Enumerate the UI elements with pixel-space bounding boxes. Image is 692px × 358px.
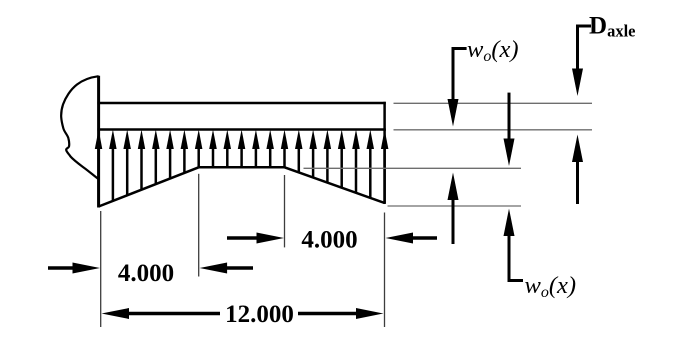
load envelope left slant (99, 167, 199, 206)
load arrow 16 (309, 130, 317, 178)
load arrow 3 (123, 130, 130, 196)
dimension arrow left-pointing (4.000 left) (200, 263, 253, 274)
extension line: middle load level (right) (304, 167, 522, 169)
load arrow 21 (381, 130, 389, 204)
load arrow 9 (209, 130, 217, 168)
load arrow 2 (109, 130, 117, 201)
load envelope right slant (285, 167, 385, 203)
extension line: x=8 vertical (284, 175, 286, 247)
svg-text:wo(x): wo(x) (467, 36, 519, 65)
up arrow + leader w_o(x) bottom (504, 209, 524, 281)
load arrow 14 (281, 130, 288, 168)
down arrow to middle load level (504, 93, 515, 166)
load arrow 11 (238, 130, 246, 168)
fixed support edge line (97, 76, 100, 208)
dimension arrow right-pointing (4.000 left) (48, 263, 100, 274)
load arrow 7 (181, 130, 189, 173)
load arrow 8 (195, 130, 203, 168)
dimension arrow left-pointing (4.000 right) (386, 233, 438, 244)
load arrow 18 (338, 130, 346, 188)
load envelope middle flat (199, 166, 285, 169)
svg-text:wo(x): wo(x) (525, 272, 577, 301)
load arrow 1 (95, 130, 103, 207)
extension line: beam top level (right) (394, 102, 593, 104)
svg-text:4.000: 4.000 (118, 260, 174, 287)
beam (axle) outline (97, 102, 385, 131)
load arrow 10 (224, 130, 232, 168)
dimension arrow right-pointing (4.000 right) (227, 233, 284, 244)
extension line: right end vertical (384, 213, 386, 328)
load envelope right edge (383, 130, 386, 205)
load arrow 6 (166, 130, 174, 179)
up arrow at beam bottom (D_axle pair) (572, 135, 583, 205)
load arrow 13 (266, 130, 274, 168)
load arrow 12 (252, 130, 259, 168)
leader arrow D_axle (572, 26, 591, 96)
leader arrow w_o(x) top (448, 49, 467, 127)
load arrow 4 (138, 130, 145, 190)
support break squiggle (61, 76, 98, 179)
up arrow at middle load level (448, 173, 459, 245)
svg-text:12.000: 12.000 (225, 301, 294, 328)
extension line: end load level (right) (388, 205, 522, 207)
load arrow 15 (295, 130, 303, 173)
load arrow 20 (367, 130, 375, 198)
extension line: left end vertical (100, 211, 102, 327)
extension line: beam bottom level (right) (394, 129, 593, 131)
load arrow 19 (352, 130, 360, 193)
svg-text:4.000: 4.000 (301, 227, 357, 254)
extension line: x=4 vertical (198, 174, 200, 277)
load arrow 17 (324, 130, 332, 183)
dimension line 12.000 with arrows (102, 308, 384, 319)
load arrow 5 (152, 130, 160, 185)
